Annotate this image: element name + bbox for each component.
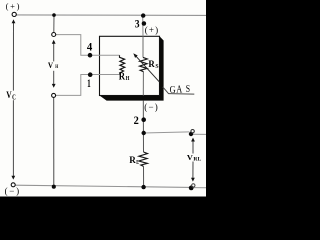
svg-text:C: C [12,93,16,101]
svg-text:V: V [48,60,54,70]
svg-text:3: 3 [135,19,140,31]
svg-text:(−): (−) [144,102,159,112]
svg-text:L: L [136,160,139,166]
svg-text:RL: RL [193,156,201,162]
svg-text:H: H [126,75,130,82]
svg-text:V: V [6,91,11,101]
svg-text:1: 1 [87,78,91,90]
svg-text:(+): (+) [6,1,22,11]
svg-text:S: S [155,63,159,70]
svg-text:(+): (+) [145,25,160,35]
svg-text:R: R [148,60,155,70]
svg-text:G: G [170,85,176,96]
svg-text:2: 2 [134,115,139,127]
svg-text:4: 4 [87,41,93,53]
svg-text:A: A [176,85,183,96]
svg-text:H: H [55,64,59,70]
svg-text:S: S [186,84,190,95]
svg-text:(−): (−) [5,186,21,196]
